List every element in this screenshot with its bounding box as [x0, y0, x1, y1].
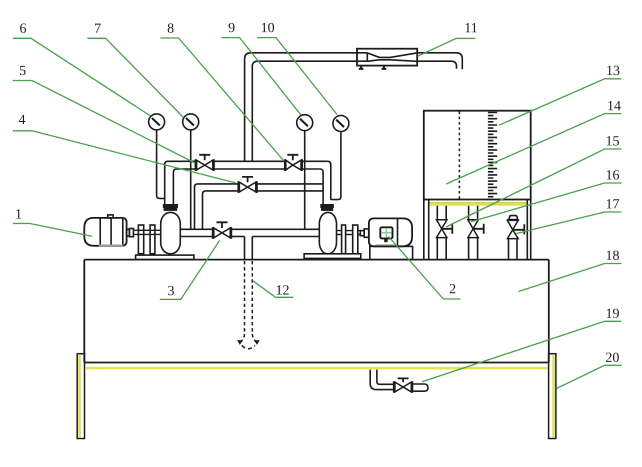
- leader 19: [422, 321, 622, 382]
- svg-text:5: 5: [19, 64, 26, 79]
- leader 11: [418, 38, 476, 56]
- leg left 20: [77, 354, 84, 439]
- reservoir tank 18: [84, 260, 549, 363]
- leader 16: [471, 183, 622, 222]
- svg-text:12: 12: [275, 283, 289, 298]
- gauge 7: [183, 114, 199, 229]
- wire top pipe inner line: [252, 61, 456, 161]
- leader 20: [557, 365, 622, 388]
- svg-text:8: 8: [167, 22, 174, 37]
- leader 12: [253, 281, 294, 298]
- leader 10: [257, 38, 337, 115]
- wire right pump riser: [320, 161, 331, 205]
- coupling shaft left: [133, 225, 160, 254]
- svg-text:7: 7: [94, 22, 101, 37]
- svg-text:20: 20: [605, 351, 619, 366]
- wire middle manifold bottom line: [203, 191, 324, 229]
- svg-text:10: 10: [261, 21, 275, 36]
- leader 17: [517, 212, 622, 234]
- motor M1: [84, 215, 133, 247]
- svg-text:3: 3: [167, 284, 174, 299]
- svg-text:16: 16: [606, 168, 620, 183]
- wire suction drop into tank: [245, 237, 253, 260]
- number labels: [15, 21, 621, 366]
- valve 17: [507, 216, 524, 260]
- svg-text:13: 13: [606, 64, 620, 79]
- leader 5: [13, 81, 195, 164]
- svg-text:14: 14: [607, 99, 621, 114]
- oil tank 14 box: [424, 111, 531, 200]
- tank frame walls: [424, 200, 531, 260]
- svg-text:15: 15: [606, 134, 620, 149]
- pump P2: [319, 205, 336, 254]
- svg-text:6: 6: [20, 22, 27, 37]
- valve 3: [213, 222, 231, 239]
- svg-text:9: 9: [228, 21, 235, 36]
- gauge 6: [149, 114, 165, 199]
- leader 14: [446, 114, 621, 184]
- leader 2: [389, 237, 461, 300]
- svg-text:18: 18: [605, 249, 619, 264]
- valve 5: [196, 155, 214, 171]
- drain pipe 19: [370, 370, 394, 390]
- svg-text:17: 17: [606, 197, 620, 212]
- svg-text:11: 11: [464, 21, 477, 36]
- motor M2: [369, 218, 412, 246]
- leader 9: [221, 38, 300, 115]
- valve 19: [394, 378, 428, 392]
- pump P1: [161, 205, 181, 254]
- pedestal under motor M2: [370, 246, 413, 259]
- wire middle manifold top line: [195, 184, 324, 229]
- wire suction line top: [180, 228, 319, 230]
- leader lines green: [13, 38, 622, 389]
- svg-text:4: 4: [19, 113, 26, 128]
- leg right 20: [549, 354, 556, 439]
- svg-text:1: 1: [15, 208, 22, 223]
- leader 18: [519, 264, 622, 292]
- svg-text:19: 19: [605, 307, 619, 322]
- wire left pump riser: [165, 161, 177, 205]
- gauge 10: [331, 116, 349, 200]
- graduated scale 13: [488, 113, 497, 197]
- leader 13: [499, 79, 621, 125]
- leader 6: [13, 38, 150, 115]
- svg-text:2: 2: [449, 282, 456, 297]
- leader 7: [87, 38, 183, 117]
- leader 1: [13, 224, 92, 237]
- valve 16: [468, 206, 484, 260]
- wire upper manifold top line: [168, 160, 328, 162]
- yellow shelf line under tank: [430, 203, 527, 206]
- yellow line in reservoir: [86, 367, 548, 370]
- flow meter 11: [357, 49, 417, 69]
- wire suction line bottom: [180, 236, 320, 238]
- gauge 9: [297, 115, 313, 230]
- leader 8: [160, 38, 284, 161]
- coupling shaft right: [337, 225, 369, 254]
- dash-dot level line: [458, 112, 460, 200]
- valve 8: [285, 155, 302, 171]
- valve 15: [437, 206, 453, 260]
- wire upper manifold bottom line: [177, 168, 320, 170]
- dashed suction line 12: [237, 261, 260, 349]
- base plate left: [136, 255, 194, 259]
- leader 4: [13, 131, 236, 183]
- leader 15: [446, 149, 622, 227]
- valve 4: [238, 177, 256, 193]
- leader 3: [160, 241, 220, 300]
- wire top pipe outer line: [245, 53, 463, 162]
- base plate right: [304, 254, 361, 259]
